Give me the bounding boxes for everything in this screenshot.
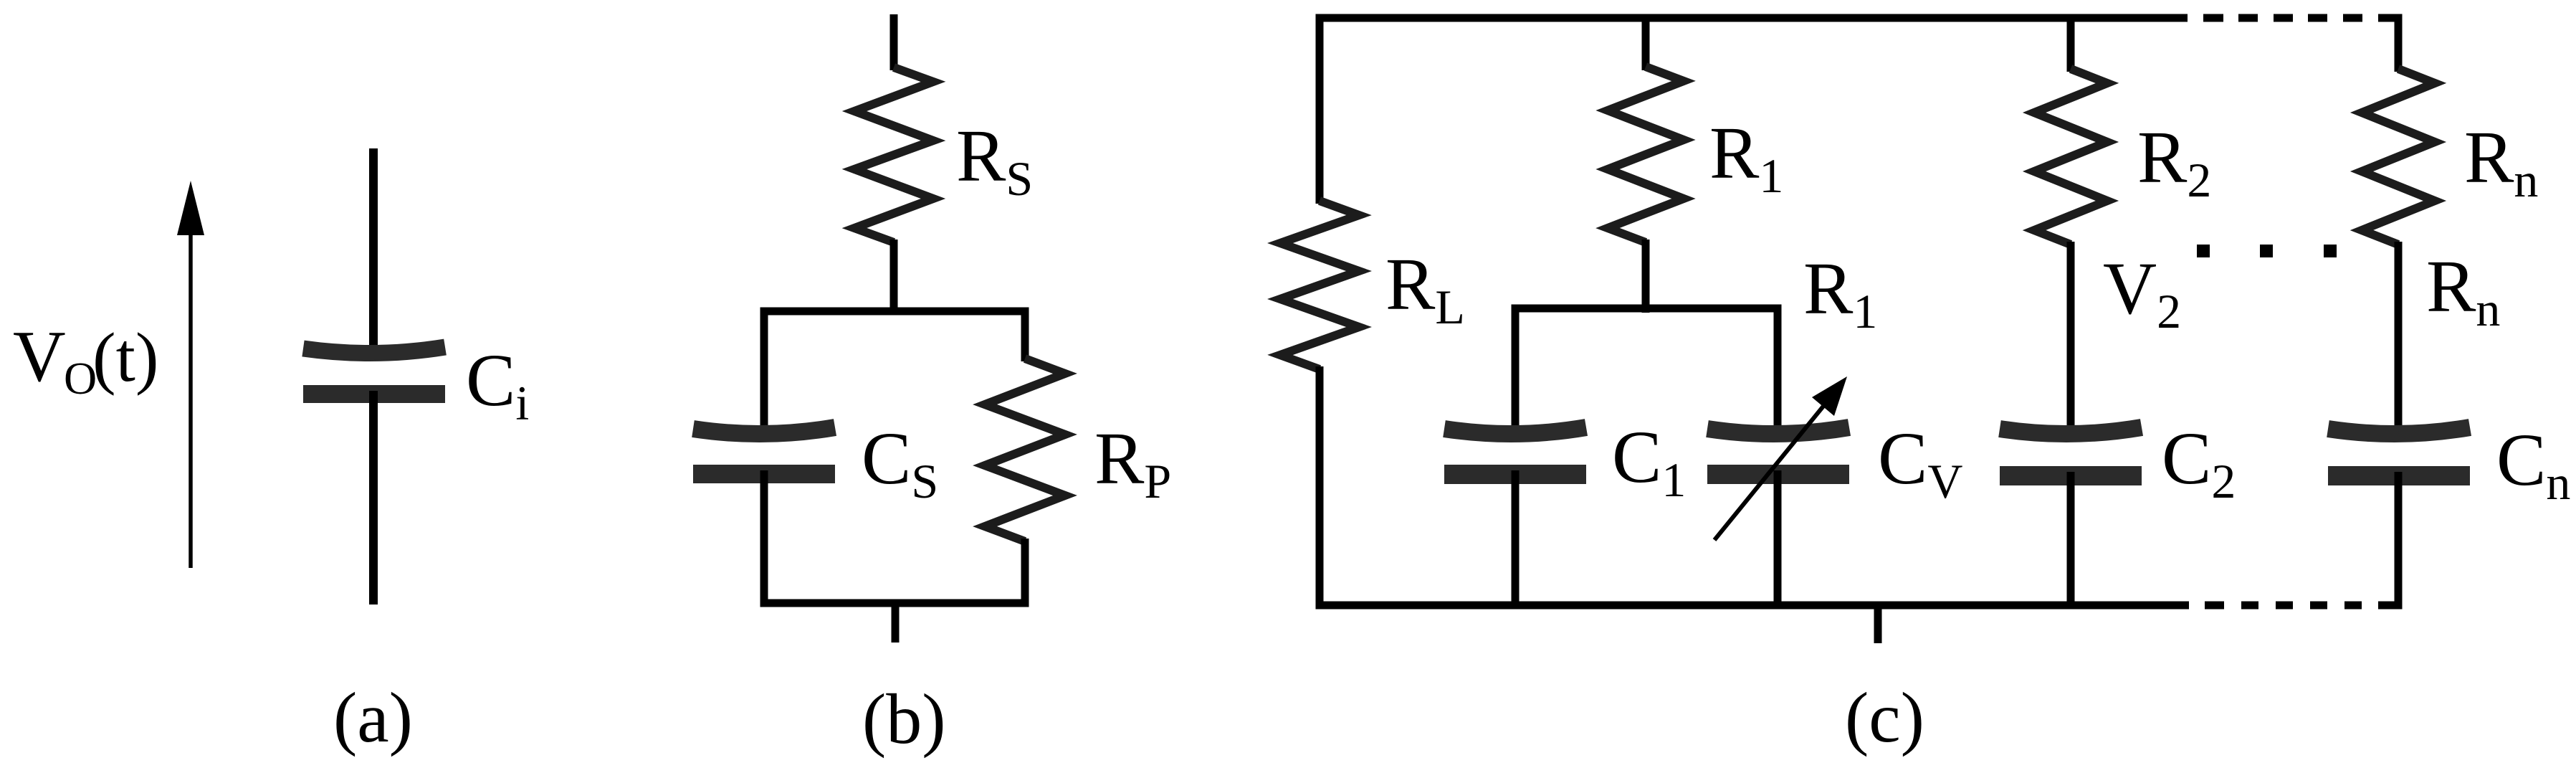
wire R_n to C_n (2395, 242, 2403, 435)
svg-text:V: V (13, 316, 66, 397)
capacitor C_1 top plate (1444, 427, 1586, 434)
node dots between branches (2197, 245, 2210, 257)
resistor R_P (985, 359, 1065, 541)
wire C_2 lower lead (2067, 472, 2075, 605)
wire bottom lead of C_i (369, 391, 378, 605)
capacitor C_V top plate (1707, 427, 1849, 434)
capacitor C_n bottom plate (2328, 466, 2470, 485)
resistor R_2 (2034, 69, 2107, 245)
resistor R_1 (1608, 67, 1684, 242)
wire bottom stub of (c) (1874, 605, 1882, 643)
wire bottom rail dashed section (2205, 602, 2398, 610)
capacitor C_1 bottom plate (1444, 465, 1586, 484)
wire top lead of R_2 (2067, 18, 2075, 72)
capacitor C_S top plate (693, 427, 835, 434)
svg-text:(a): (a) (333, 678, 413, 757)
variable capacitor arrow head (1812, 376, 1847, 416)
wire C_V lower lead (1774, 470, 1782, 605)
arrow V_O(t) head (177, 181, 204, 235)
wire bottom rail left + R_L lower lead (1320, 366, 2189, 605)
resistor R_n (2362, 69, 2435, 245)
svg-text:(c): (c) (1845, 678, 1924, 757)
wire bottom stub of (b) (892, 603, 900, 643)
capacitor C_i top plate (303, 347, 445, 354)
resistor R_S (854, 67, 933, 242)
wire box (c) top and upper sides (1515, 308, 1778, 435)
wire top rail left + R_L upper lead (1320, 18, 2188, 204)
wire R_S to box top (890, 240, 898, 315)
wire C_n lower lead + bottom right corner (2383, 472, 2398, 605)
wire box (b) top and upper sides (764, 311, 1025, 435)
svg-text:(b): (b) (862, 679, 946, 759)
capacitor C_2 bottom plate (2000, 466, 2142, 485)
svg-text:(t): (t) (92, 319, 159, 397)
wire top lead of R_S (890, 14, 898, 70)
resistor R_L (1280, 201, 1359, 369)
wire top rail dashed section (2203, 14, 2398, 22)
wire top lead of R_1 (1642, 18, 1650, 70)
arrow V_O(t) shaft (189, 228, 193, 568)
wire R_1 to box top (1642, 240, 1650, 313)
capacitor C_S bottom plate (693, 465, 835, 483)
capacitor C_n top plate (2328, 427, 2470, 434)
capacitor C_2 top plate (2000, 427, 2142, 434)
wire R_2 to C_2 (2067, 242, 2075, 435)
wire top right corner + R_n upper lead (2380, 18, 2398, 72)
wire top lead of C_i (369, 148, 378, 353)
capacitor C_i bottom plate (303, 385, 445, 403)
variable capacitor arrow shaft (1714, 401, 1828, 540)
wire box (b) bottom and lower sides (764, 470, 1025, 603)
wire C_1 lower lead (1512, 470, 1520, 605)
capacitor C_V bottom plate (1707, 465, 1849, 484)
